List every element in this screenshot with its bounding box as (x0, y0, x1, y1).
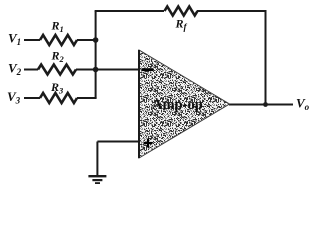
svg-text:V3: V3 (7, 89, 21, 106)
svg-text:V2: V2 (8, 61, 22, 78)
svg-text:Vo: Vo (296, 96, 310, 113)
svg-text:R3: R3 (50, 80, 64, 96)
svg-text:R2: R2 (51, 49, 65, 65)
svg-text:V1: V1 (8, 31, 21, 48)
svg-text:Rf: Rf (175, 17, 188, 33)
svg-text:R1: R1 (51, 19, 64, 35)
svg-text:Amp-op: Amp-op (152, 97, 203, 113)
